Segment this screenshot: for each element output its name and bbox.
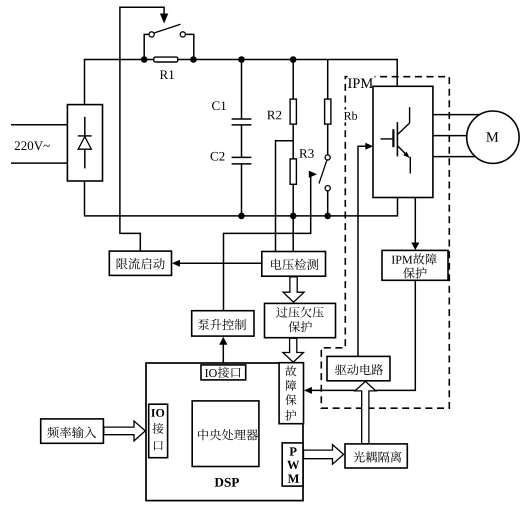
motor M: [467, 111, 519, 163]
arrow 电压检测 to 限流启动: [172, 260, 262, 267]
wire cap column top: [241, 60, 243, 120]
block 故障保护 vertical: [279, 363, 303, 424]
wire switch left leg: [144, 34, 149, 59]
wire DC+ bus left: [84, 59, 154, 61]
label DSP: [215, 478, 239, 487]
block 频率输入: [41, 419, 104, 443]
wire AC input lines: [11, 125, 67, 163]
wire motor phase V: [433, 135, 481, 137]
capacitor C1: [232, 119, 252, 125]
block 过压欠压保护: [265, 303, 336, 337]
wire switch bottom: [327, 191, 329, 216]
label C2: [211, 152, 225, 161]
block 泵升控制: [192, 311, 254, 336]
wire IPM fault to 故障保护: [310, 281, 416, 391]
label R1: [160, 70, 174, 79]
arrow hollow to 过压欠压保护: [283, 277, 304, 302]
DSP box: [146, 363, 303, 501]
block IPM故障保护: [382, 250, 448, 280]
wire gate drive: [358, 146, 368, 356]
wire switch right leg: [185, 34, 193, 59]
wire DC+ bus right: [178, 59, 398, 61]
node R3 bottom: [290, 213, 297, 220]
brake switch: [319, 155, 330, 191]
arrow hollow 光耦隔离 to 驱动电路: [355, 381, 376, 443]
rectifier bridge: [67, 105, 102, 181]
wire IO to pump: [222, 344, 224, 365]
wire cap column middle: [241, 125, 243, 157]
wire motor phase U: [433, 114, 481, 116]
relay contact over R1: [149, 24, 185, 37]
resistor R3: [290, 159, 296, 184]
arrow into 泵升控制: [219, 337, 227, 345]
arrow hollow PWM to 光耦隔离: [304, 445, 344, 465]
wire R2 top: [292, 60, 294, 100]
block 电压检测: [262, 252, 326, 277]
wire DC- bus: [84, 215, 398, 217]
label R2: [267, 111, 281, 120]
arrow into 故障保护: [304, 387, 312, 394]
wire IPM top feed: [396, 59, 398, 86]
resistor R2: [290, 99, 296, 124]
arrow at brake switch: [309, 171, 317, 178]
wire pump control: [224, 175, 311, 311]
wire bypass control: [120, 7, 164, 251]
wire R3 bottom: [292, 184, 294, 251]
node R1 right: [190, 56, 197, 63]
capacitor C2: [232, 157, 252, 164]
label IPM: [348, 73, 375, 88]
label Rb: [342, 110, 360, 123]
wire motor phase W: [433, 156, 481, 158]
wire IPM fault down: [414, 198, 416, 245]
wire cap column bottom: [241, 164, 243, 216]
wire Rb to switch: [327, 124, 329, 155]
label C1: [212, 101, 226, 110]
block 光耦隔离: [345, 444, 407, 468]
wire IPM bottom to bus: [397, 198, 399, 216]
arrow hollow to 故障保护: [283, 338, 304, 362]
resistor Rb: [325, 99, 331, 124]
block IO接口 top: [201, 365, 246, 380]
node Rb bottom: [324, 213, 331, 220]
block 限流启动: [109, 251, 171, 275]
label R3: [299, 149, 313, 158]
wire rectifier bottom riser: [84, 181, 86, 216]
block 驱动电路: [327, 356, 390, 380]
diode inside rectifier: [78, 117, 92, 169]
block PWM: [282, 443, 303, 486]
node R1 left: [141, 56, 148, 63]
wire R2-R3 link: [292, 124, 294, 159]
wire divider tap: [276, 141, 294, 251]
node cap bottom: [238, 213, 245, 220]
wire rectifier top riser: [84, 59, 86, 105]
arrow hollow 频率输入 to DSP: [104, 421, 146, 441]
node R2 top: [290, 56, 297, 63]
block 中央处理器: [192, 401, 259, 467]
node cap top: [238, 56, 245, 63]
wire Rb top: [327, 60, 329, 100]
resistor R1: [154, 57, 178, 62]
IGBT symbol: [381, 107, 411, 173]
IPM boundary dashed: [321, 77, 449, 409]
AC source label 220V~: [15, 141, 50, 150]
IPM inverter box: [373, 86, 433, 197]
arrow into IPM fault box: [411, 243, 419, 251]
block IO接口 left vertical: [149, 404, 168, 458]
arrow at bypass switch: [160, 14, 168, 24]
arrow into IPM gate: [365, 143, 373, 150]
